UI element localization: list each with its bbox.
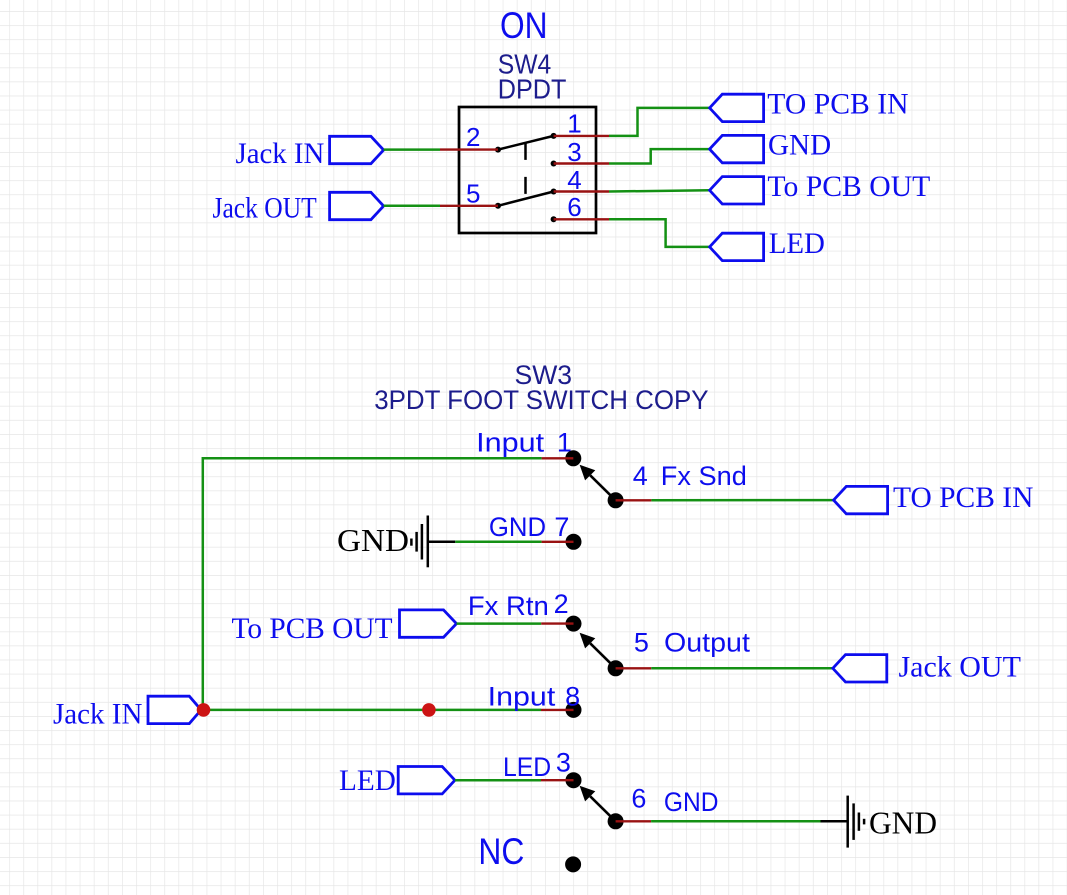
svg-text:To PCB OUT: To PCB OUT bbox=[232, 612, 393, 645]
wire Jack IN vertical riser bbox=[203, 458, 542, 710]
svg-text:GND: GND bbox=[664, 787, 719, 817]
wire 5 Output to Jack OUT bbox=[651, 667, 833, 670]
net flag LED (bottom) bbox=[398, 767, 455, 794]
wire pin3 to GND bbox=[609, 149, 710, 163]
pin Input 1 line bbox=[542, 457, 574, 459]
SW3 contact dot 4 Fx Snd bbox=[608, 492, 624, 508]
pin 1 line bbox=[554, 135, 609, 137]
net flag GND (top) bbox=[710, 135, 764, 162]
net flag Jack OUT (bottom) bbox=[833, 655, 887, 682]
pin LED 3 line bbox=[541, 779, 574, 781]
svg-text:4: 4 bbox=[567, 165, 581, 195]
svg-text:3PDT FOOT SWITCH COPY: 3PDT FOOT SWITCH COPY bbox=[374, 385, 708, 415]
pin 4 line bbox=[554, 190, 609, 192]
net flag Jack IN (top) bbox=[330, 136, 384, 163]
net flag Jack OUT (top) bbox=[330, 192, 384, 219]
pin Fx Rtn 2 line bbox=[541, 622, 573, 624]
wire LED to LED 3 bbox=[455, 779, 541, 782]
svg-text:To PCB OUT: To PCB OUT bbox=[767, 170, 930, 203]
SW4 pole A lever bbox=[498, 136, 554, 150]
svg-text:1: 1 bbox=[567, 109, 581, 139]
svg-text:GND: GND bbox=[489, 512, 546, 542]
wire 6 GND to ground bbox=[651, 820, 820, 823]
net flag LED (top) bbox=[710, 233, 764, 260]
svg-text:TO PCB IN: TO PCB IN bbox=[893, 481, 1033, 514]
wire GND to pin 7 bbox=[455, 541, 541, 544]
SW4 pole B contact dot pin4 bbox=[551, 189, 557, 195]
wire pin1 to TO PCB IN bbox=[609, 108, 710, 136]
SW3 contact dot 5 Output bbox=[608, 660, 624, 676]
svg-text:4: 4 bbox=[633, 461, 648, 491]
svg-text:GND: GND bbox=[337, 522, 409, 558]
ground GND (right) symbol bbox=[821, 796, 865, 848]
pin GND 7 line bbox=[542, 541, 574, 543]
svg-text:DPDT: DPDT bbox=[498, 73, 567, 104]
svg-text:2: 2 bbox=[554, 589, 569, 619]
svg-text:Fx Snd: Fx Snd bbox=[661, 461, 747, 491]
net flag TO PCB IN (bottom) bbox=[834, 486, 888, 513]
svg-text:LED: LED bbox=[503, 752, 551, 782]
SW3 pole 3 arrow bbox=[580, 786, 616, 822]
switch SW4 body bbox=[459, 107, 596, 233]
wire To PCB OUT to Fx Rtn bbox=[457, 622, 542, 625]
wire 4 Fx Snd to TO PCB IN bbox=[651, 499, 833, 502]
pin 5 line bbox=[440, 205, 498, 207]
svg-text:Jack IN: Jack IN bbox=[53, 698, 142, 731]
svg-text:2: 2 bbox=[466, 122, 480, 152]
junction mid wire bbox=[422, 703, 436, 717]
SW3 contact dot Input 8 bbox=[566, 702, 582, 718]
svg-text:Fx Rtn: Fx Rtn bbox=[468, 591, 549, 621]
SW4 pole A contact dot pin3 bbox=[551, 161, 557, 167]
svg-text:LED: LED bbox=[769, 227, 825, 260]
net flag Jack IN (bottom) bbox=[148, 696, 201, 723]
svg-text:Jack IN: Jack IN bbox=[236, 137, 325, 170]
net flag TO PCB IN (top) bbox=[710, 94, 764, 121]
wire pin6 to LED bbox=[609, 219, 710, 247]
svg-text:3: 3 bbox=[556, 747, 571, 777]
SW4 pole B lever bbox=[498, 192, 554, 206]
svg-text:5: 5 bbox=[634, 628, 649, 658]
svg-text:Input: Input bbox=[476, 427, 545, 457]
svg-text:6: 6 bbox=[631, 784, 646, 814]
net flag To PCB OUT (top) bbox=[710, 177, 764, 204]
SW3 contact dot Fx Rtn 2 bbox=[566, 616, 582, 632]
wire Jack OUT to pin5 bbox=[384, 205, 440, 208]
SW4 pole B contact dot pin6 bbox=[551, 216, 557, 222]
pin 4 Fx Snd line bbox=[616, 499, 652, 501]
svg-text:ON: ON bbox=[500, 5, 548, 46]
SW3 contact dot Input 1 bbox=[565, 450, 581, 466]
svg-text:3: 3 bbox=[567, 137, 581, 167]
wire pin4 to To PCB OUT bbox=[609, 190, 710, 191]
wire Jack IN to pin2 bbox=[384, 148, 440, 151]
SW3 contact dot LED 3 bbox=[566, 772, 582, 788]
net flag To PCB OUT (bottom) bbox=[400, 610, 457, 637]
ground GND (left) symbol bbox=[411, 516, 455, 568]
svg-text:6: 6 bbox=[567, 192, 581, 222]
SW4 pole A contact dot pin1 bbox=[551, 133, 557, 139]
svg-text:8: 8 bbox=[565, 681, 580, 711]
svg-text:GND: GND bbox=[768, 129, 831, 162]
pin 6 GND line bbox=[616, 820, 652, 822]
SW3 pole 2 arrow bbox=[580, 633, 616, 669]
SW4 mechanical link dashed bbox=[524, 143, 527, 195]
svg-text:TO PCB IN: TO PCB IN bbox=[767, 88, 908, 121]
svg-text:LED: LED bbox=[339, 764, 396, 797]
SW4 pole B contact dot pin5 bbox=[495, 203, 501, 209]
pin Input 8 line bbox=[541, 709, 574, 711]
junction at Jack IN tip bbox=[197, 703, 211, 717]
SW3 contact dot 6 GND bbox=[608, 813, 624, 829]
svg-text:GND: GND bbox=[869, 805, 937, 841]
wire Jack IN to Input 8 bbox=[201, 709, 541, 712]
pin 5 Output line bbox=[616, 667, 652, 669]
svg-text:NC: NC bbox=[478, 831, 524, 872]
svg-text:Jack OUT: Jack OUT bbox=[899, 651, 1021, 684]
svg-text:Output: Output bbox=[664, 628, 750, 658]
SW3 pole 1 arrow bbox=[580, 465, 616, 501]
svg-text:5: 5 bbox=[466, 179, 480, 209]
svg-text:Jack OUT: Jack OUT bbox=[213, 192, 317, 225]
SW3 contact dot NC bbox=[565, 856, 581, 872]
svg-text:7: 7 bbox=[554, 512, 569, 542]
pin 2 line bbox=[440, 148, 498, 150]
svg-text:Input: Input bbox=[488, 681, 556, 711]
pin 6 line bbox=[554, 218, 609, 220]
pin 3 line bbox=[554, 162, 609, 164]
SW4 pole A contact dot pin2 bbox=[495, 147, 501, 153]
SW3 contact dot GND 7 bbox=[566, 534, 582, 550]
